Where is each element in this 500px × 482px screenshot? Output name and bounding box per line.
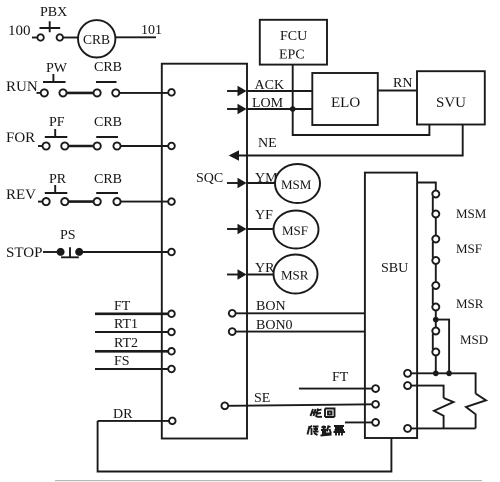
wire chain xyxy=(435,218,437,236)
wire SBU to contact chain xyxy=(417,183,436,191)
svg-text:ACK: ACK xyxy=(255,78,285,93)
svg-text:100: 100 xyxy=(8,23,31,39)
terminal DR on block xyxy=(169,418,176,425)
wire PBX to CRB coil xyxy=(63,37,78,39)
svg-text:SQC: SQC xyxy=(196,171,223,186)
terminal SBU right middle xyxy=(404,382,411,389)
wire CRB coil to node 101 xyxy=(115,36,156,38)
wire resistor feed left xyxy=(411,386,444,398)
svg-text:FS: FS xyxy=(114,354,130,369)
terminal FT on block xyxy=(168,311,175,318)
wire resistor bus lower xyxy=(411,427,476,429)
svg-text:ELO: ELO xyxy=(331,95,360,111)
box ELO xyxy=(312,73,378,125)
terminal warp sensor on SBU xyxy=(372,419,379,426)
svg-text:RT2: RT2 xyxy=(114,336,138,351)
arrow YR out xyxy=(227,274,238,276)
terminal BON xyxy=(229,310,236,317)
wire chain xyxy=(435,264,437,282)
junction dot MSR branch xyxy=(433,317,439,323)
terminal FOR on block xyxy=(168,143,175,150)
terminal SE on SBU xyxy=(372,401,379,408)
controller SBU block xyxy=(365,173,417,438)
terminal SE xyxy=(221,402,228,409)
svg-text:CRB: CRB xyxy=(94,115,122,130)
wire YM to MSM xyxy=(247,182,275,184)
svg-text:CRB: CRB xyxy=(83,32,110,47)
svg-text:MSF: MSF xyxy=(282,223,308,238)
wire NE from SVU xyxy=(239,125,463,156)
wire SE to SBU xyxy=(228,404,372,406)
contact chain MSF lower terminal xyxy=(432,257,439,264)
contact MSF blade xyxy=(432,242,434,258)
terminal FT on SBU xyxy=(372,385,379,392)
svg-text:RT1: RT1 xyxy=(114,317,138,332)
contact chain MSD lower terminal xyxy=(432,349,439,356)
box FCU/EPC xyxy=(260,20,327,65)
svg-text:PR: PR xyxy=(49,172,67,187)
terminal BON0 xyxy=(229,328,236,335)
arrow NE in xyxy=(229,150,239,160)
wire DR xyxy=(98,420,169,422)
wire chain with branch junction xyxy=(435,311,437,328)
wire PR to CRB contact (REV row) xyxy=(68,200,93,203)
wire branch to right xyxy=(436,320,449,374)
terminal FS on block xyxy=(168,366,175,373)
contact PR terminals xyxy=(43,198,50,205)
contact MSD blade xyxy=(432,334,434,350)
contact PBX left terminal xyxy=(37,34,43,40)
svg-text:MSR: MSR xyxy=(281,268,309,283)
terminal REV on block xyxy=(168,198,175,205)
resistor left (jagged element) xyxy=(434,398,454,428)
terminal STOP on block xyxy=(168,249,175,256)
svg-text:CRB: CRB xyxy=(94,172,122,187)
wire YF to MSF xyxy=(247,228,274,230)
svg-text:CRB: CRB xyxy=(94,60,122,75)
svg-text:SBU: SBU xyxy=(381,261,408,276)
svg-text:YR: YR xyxy=(255,261,275,276)
box SVU xyxy=(417,71,485,124)
contact MSM blade xyxy=(432,197,434,212)
svg-text:NE: NE xyxy=(258,136,277,151)
scan artifact line xyxy=(55,480,482,482)
motor MSM xyxy=(275,164,320,203)
pushbutton PS NC contact dots xyxy=(57,248,65,256)
wire chain bottom xyxy=(435,356,437,374)
contact MSR blade xyxy=(432,288,434,304)
wire BON to SBU xyxy=(236,312,365,314)
svg-text:FT: FT xyxy=(332,370,349,385)
wire STOP to PS xyxy=(43,251,57,253)
wire resistor bus upper xyxy=(411,373,476,393)
contact chain MSM lower terminal xyxy=(432,211,439,218)
wire RUN to PW xyxy=(37,92,41,94)
svg-text:101: 101 xyxy=(141,23,162,38)
svg-text:PW: PW xyxy=(46,61,68,76)
wire LOM to ELO xyxy=(247,108,312,110)
contact PW terminals xyxy=(41,89,48,96)
terminal RUN on block xyxy=(168,89,175,96)
svg-text:PBX: PBX xyxy=(40,5,67,20)
junction dot branch to bus xyxy=(446,370,452,376)
contact CRB NC bar (FOR row) xyxy=(96,136,118,138)
wire DR drop to bottom bus xyxy=(98,421,392,472)
contact PF actuator xyxy=(45,129,68,137)
wire 100 to PBX xyxy=(32,37,37,39)
terminal RT2 on block xyxy=(168,348,175,355)
contact chain MSR lower terminal xyxy=(432,304,439,311)
resistor right (jagged element) xyxy=(466,394,486,429)
svg-text:BON: BON xyxy=(256,299,286,314)
junction dot chain to bus xyxy=(433,370,439,376)
wire warp sensor to SBU xyxy=(345,421,372,423)
svg-text:PF: PF xyxy=(49,115,65,130)
wire BON0 to SBU xyxy=(236,331,365,333)
contact PW actuator xyxy=(43,74,66,82)
contact chain MSM upper terminal xyxy=(432,191,439,198)
pushbutton PS actuator xyxy=(61,247,79,257)
svg-text:MSR: MSR xyxy=(456,296,484,311)
terminal SBU right upper xyxy=(404,370,411,377)
svg-text:FOR: FOR xyxy=(6,130,35,146)
wire FCU drop xyxy=(293,65,430,135)
wire FT xyxy=(95,312,168,315)
relay coil CRB xyxy=(78,20,115,57)
contact PBX right terminal xyxy=(57,34,63,40)
contact CRB NC bar (REV row) xyxy=(96,192,118,194)
svg-text:MSD: MSD xyxy=(460,332,488,347)
junction dot LOM/FCU xyxy=(290,106,296,112)
terminal RT1 on block xyxy=(168,329,175,336)
wire ACK to ELO xyxy=(247,90,312,92)
wire FOR to PF xyxy=(38,145,43,147)
contact chain MSD upper terminal xyxy=(432,328,439,335)
contact CRB (REV row) terminals xyxy=(94,198,101,205)
svg-text:SVU: SVU xyxy=(436,95,466,111)
terminal SBU right lower xyxy=(404,425,411,432)
svg-text:PS: PS xyxy=(60,228,76,243)
contact PR actuator xyxy=(45,185,68,193)
contact PBX actuator xyxy=(40,21,61,32)
motor MSR xyxy=(274,255,318,294)
wire PS to block xyxy=(83,251,168,253)
wire CRB contact to block (REV row) xyxy=(121,201,169,203)
svg-text:STOP: STOP xyxy=(6,245,42,261)
wire PW to CRB contact (RUN row) xyxy=(67,92,94,95)
svg-text:YF: YF xyxy=(255,208,273,223)
arrow LOM out xyxy=(227,108,238,110)
controller main block xyxy=(162,64,247,439)
svg-text:MSM: MSM xyxy=(456,206,487,221)
wire RN xyxy=(378,90,417,92)
contact CRB NC bar (RUN row) xyxy=(96,81,117,83)
motor MSF xyxy=(274,211,319,249)
wire YR to MSR xyxy=(247,274,274,276)
arrow YF out xyxy=(227,228,238,230)
svg-text:FCU: FCU xyxy=(280,29,307,44)
svg-text:RUN: RUN xyxy=(6,79,38,95)
label warp sensor line2 (Chinese) xyxy=(308,426,346,436)
svg-text:DR: DR xyxy=(113,407,133,422)
svg-text:SE: SE xyxy=(254,391,270,406)
arrow YM out xyxy=(227,182,238,184)
svg-text:LOM: LOM xyxy=(252,96,284,111)
wire FS xyxy=(95,368,168,370)
wire CRB contact to block (FOR row) xyxy=(121,145,169,147)
svg-text:FT: FT xyxy=(114,299,131,314)
svg-text:RN: RN xyxy=(393,76,412,91)
label warp sensor line1 (Chinese) xyxy=(311,409,335,418)
arrow ACK out xyxy=(227,90,238,92)
contact CRB (FOR row) terminals xyxy=(94,142,101,149)
svg-text:MSF: MSF xyxy=(456,241,482,256)
wire FT sensor xyxy=(299,388,372,390)
svg-text:EPC: EPC xyxy=(279,48,305,63)
contact CRB (RUN row) terminals xyxy=(94,89,101,96)
svg-text:MSM: MSM xyxy=(281,177,312,192)
contact chain MSF upper terminal xyxy=(432,236,439,243)
wire REV to PR xyxy=(38,201,43,203)
contact PF terminals xyxy=(43,142,50,149)
wire CRB contact to block (RUN row) xyxy=(119,92,168,94)
wire PF to CRB contact (FOR row) xyxy=(68,145,93,148)
wire RT1 xyxy=(95,331,168,333)
wire RT2 xyxy=(95,350,168,353)
svg-text:BON0: BON0 xyxy=(256,318,293,333)
svg-text:REV: REV xyxy=(6,187,36,203)
contact chain MSR upper terminal xyxy=(432,282,439,289)
